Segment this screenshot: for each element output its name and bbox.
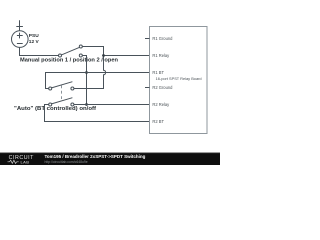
svg-text:R1 BT: R1 BT (152, 70, 164, 75)
node tick on PSU top stub (16, 26, 23, 28)
wire R1 BT line: SW2a left riser across to R1 BT pin (46, 73, 150, 89)
svg-text:R1 Ground: R1 Ground (152, 36, 173, 41)
power supply V1 (PSU 12V) (11, 20, 58, 55)
logo resistor zigzag (8, 160, 19, 163)
mechanical link dashed between SW2 blades (61, 85, 63, 101)
pin stub R2 Ground (145, 87, 150, 89)
junction node pos2 x R2 relay line (85, 103, 88, 106)
wire position1 net to R1 Relay pin (74, 47, 150, 89)
relay board box U1 (150, 27, 208, 134)
SW1 blade (61, 47, 79, 55)
SW2b left contact (49, 103, 52, 106)
wire SW2b right to R2 Relay pin (74, 104, 150, 106)
SW2b right contact (71, 103, 74, 106)
junction node pos2 x R1BT line (85, 71, 88, 74)
label PSU 12 V (29, 33, 40, 45)
svg-text:PSU: PSU (29, 33, 39, 39)
wire position2 net: SW1 pos2 down riser (82, 56, 86, 105)
SW2a blade (52, 82, 73, 88)
SW1 common contact (59, 54, 62, 57)
SW2b blade (52, 98, 73, 104)
svg-text:16-port SPST Relay Board: 16-port SPST Relay Board (156, 76, 202, 81)
PSU circle body (11, 31, 28, 48)
SW2a right contact (71, 87, 74, 90)
svg-text:R2 BT: R2 BT (152, 119, 164, 124)
svg-text:http://circuitlab.com/c648u9e: http://circuitlab.com/c648u9e (45, 160, 88, 164)
wire PSU top stub (19, 20, 21, 31)
SW1 contact position 2 (79, 54, 82, 57)
minus sign (17, 43, 23, 45)
pin stub R1 Ground (145, 38, 150, 40)
svg-text:LAB: LAB (21, 160, 30, 165)
wire SW2b left down to R2 BT pin (45, 105, 150, 122)
svg-text:"Auto" (BT controlled) on/off: "Auto" (BT controlled) on/off (14, 106, 96, 112)
svg-text:Tom195 / Breadroller 2xSPST->S: Tom195 / Breadroller 2xSPST->SPDT Switch… (45, 154, 146, 159)
SW1 contact position 1 (79, 45, 82, 48)
SW2a left contact (49, 87, 52, 90)
wire PSU bottom to SW1 common (20, 47, 59, 55)
junction node pos1/R1-relay (102, 54, 105, 57)
switch SW2b (auto, lower pole) (49, 98, 74, 106)
switch SW1 manual SPDT (59, 45, 83, 57)
plus sign (17, 33, 23, 39)
svg-text:R2 Relay: R2 Relay (152, 102, 170, 107)
svg-text:R1 Relay: R1 Relay (152, 53, 170, 58)
CircuitLab logo wordmark (9, 155, 35, 164)
wire down with hop over R1 BT line, then left to SW2a right contact (74, 56, 106, 89)
wire SW1 pos1 right then down (82, 47, 103, 56)
switch SW2a (auto, upper pole) (49, 82, 74, 90)
wire to R1 Relay pin (104, 55, 150, 57)
svg-text:12 V: 12 V (29, 39, 40, 45)
pin labels (152, 36, 201, 124)
footer bar (0, 153, 220, 166)
svg-text:R2 Ground: R2 Ground (152, 85, 173, 90)
